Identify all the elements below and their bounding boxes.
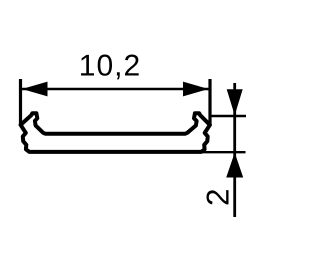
profile cross-section outline <box>21 113 210 152</box>
dimension line 10,2 <box>21 88 211 90</box>
svg-text:2: 2 <box>200 188 236 206</box>
left arrow <box>22 82 48 97</box>
bottom tick <box>202 151 246 153</box>
top arrow (down) <box>227 89 243 115</box>
svg-text:10,2: 10,2 <box>79 50 141 83</box>
right extension line <box>208 79 211 126</box>
right arrow <box>183 82 209 97</box>
left extension line <box>19 79 22 126</box>
bottom arrow (up) <box>226 153 243 178</box>
right dimension: vertical line <box>233 83 236 217</box>
top tick <box>210 115 246 117</box>
